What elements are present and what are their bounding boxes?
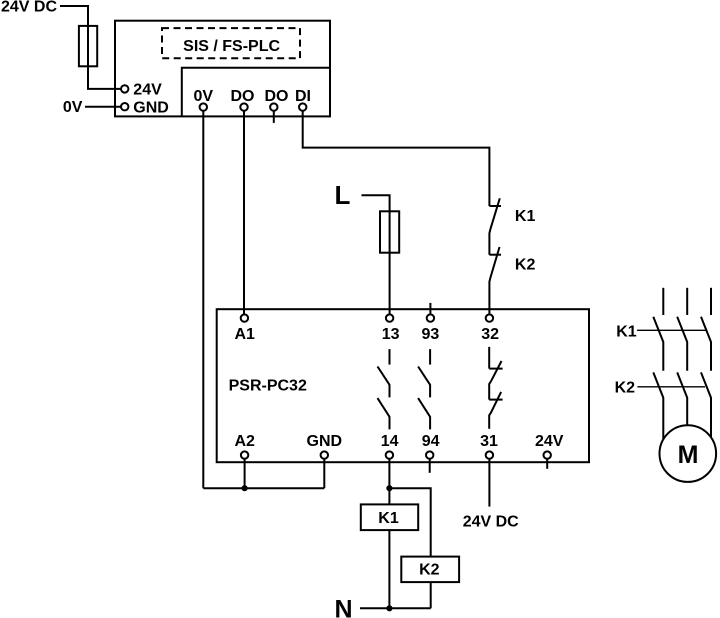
relay PSR-PC32 box bbox=[217, 309, 589, 462]
contactor K1 pole 3 bbox=[701, 317, 711, 371]
wire DO to A1 bbox=[243, 107, 245, 318]
svg-text:32: 32 bbox=[481, 326, 499, 343]
wire phase 1 supply bbox=[662, 288, 664, 315]
wire 0V from PLC to A2/GND rail bbox=[202, 107, 204, 488]
wire 24V DC feed bbox=[60, 6, 121, 89]
wire stub above terminal 93 bbox=[429, 303, 431, 318]
wire A2 to rail bbox=[244, 455, 246, 488]
svg-text:K2: K2 bbox=[419, 562, 440, 579]
motor M bbox=[660, 425, 717, 482]
terminal A2 bbox=[241, 451, 248, 458]
contactor K1 pole 2 bbox=[677, 317, 687, 371]
junction A2 rail bbox=[242, 485, 248, 491]
contactor K2 linkage bbox=[637, 386, 705, 388]
wire stub below terminal 94 bbox=[429, 455, 431, 473]
svg-text:24V DC: 24V DC bbox=[463, 514, 519, 531]
coil K1 bbox=[361, 504, 418, 530]
contact K2 (feedback, NO) bbox=[489, 247, 501, 318]
pin GND of PLC bbox=[121, 103, 128, 110]
svg-text:M: M bbox=[678, 441, 699, 469]
junction N bbox=[386, 605, 392, 611]
svg-text:K1: K1 bbox=[515, 208, 536, 225]
svg-text:PSR-PC32: PSR-PC32 bbox=[229, 378, 307, 395]
contactor K2 pole 3 bbox=[701, 372, 711, 442]
wire L feed to terminal 13 bbox=[362, 195, 390, 318]
svg-text:DO: DO bbox=[265, 88, 289, 105]
wire phase 2 supply bbox=[686, 288, 688, 315]
terminal 94 bbox=[426, 451, 433, 458]
svg-text:24V: 24V bbox=[133, 82, 162, 99]
wire 0V feed bbox=[85, 106, 121, 108]
svg-text:K2: K2 bbox=[515, 257, 536, 274]
terminal 32 bbox=[486, 314, 493, 321]
contactor K1 pole 1 bbox=[653, 317, 663, 371]
wire terminal 31 to 24V DC bbox=[488, 455, 490, 507]
terminal 24V bbox=[544, 451, 551, 458]
pin 0V of PLC I/O bbox=[200, 103, 207, 110]
svg-text:24V: 24V bbox=[535, 433, 564, 450]
svg-text:GND: GND bbox=[307, 433, 343, 450]
svg-text:A2: A2 bbox=[234, 433, 255, 450]
pin DO of PLC I/O bbox=[240, 103, 247, 110]
terminal GND bbox=[321, 451, 328, 458]
svg-text:93: 93 bbox=[422, 326, 440, 343]
svg-text:GND: GND bbox=[133, 100, 169, 117]
svg-text:L: L bbox=[335, 180, 351, 210]
svg-text:14: 14 bbox=[381, 433, 399, 450]
wire DI to K1 contact bbox=[303, 107, 490, 206]
svg-text:SIS / FS-PLC: SIS / FS-PLC bbox=[183, 38, 280, 55]
svg-text:13: 13 bbox=[382, 326, 400, 343]
wire branch to coil K2 bbox=[389, 488, 430, 608]
contactor K1 linkage bbox=[637, 329, 706, 331]
pin DO2 of PLC I/O bbox=[270, 103, 277, 110]
svg-text:0V: 0V bbox=[63, 99, 83, 116]
junction 14 branch bbox=[386, 485, 392, 491]
wire N rail bbox=[360, 607, 431, 609]
svg-text:K1: K1 bbox=[378, 510, 399, 527]
internal contact 32-31 (two NC in series) bbox=[489, 347, 502, 429]
wire 0V/A2/GND rail bbox=[203, 487, 324, 489]
wire terminal 14 to coil K1 and N bbox=[388, 455, 390, 608]
svg-text:A1: A1 bbox=[234, 326, 255, 343]
terminal 93 bbox=[427, 314, 434, 321]
svg-text:N: N bbox=[335, 596, 353, 618]
coil K2 bbox=[401, 557, 459, 583]
contact K1 (feedback, NO) bbox=[489, 198, 501, 254]
pin 24V of PLC bbox=[121, 85, 128, 92]
wire stub DO unused bbox=[273, 107, 275, 123]
internal contact 93-94 (two NO in series) bbox=[418, 349, 430, 429]
svg-text:94: 94 bbox=[422, 433, 440, 450]
wire stub below terminal 24V bbox=[546, 455, 548, 469]
wire GND to rail bbox=[323, 455, 325, 488]
contactor K2 pole 1 bbox=[653, 372, 663, 442]
fuse F1 bbox=[79, 26, 97, 66]
svg-text:DO: DO bbox=[231, 88, 255, 105]
svg-text:DI: DI bbox=[295, 88, 311, 105]
contactor K2 pole 2 bbox=[677, 372, 687, 430]
svg-text:K2: K2 bbox=[615, 380, 636, 397]
svg-text:0V: 0V bbox=[194, 88, 214, 105]
terminal 13 bbox=[386, 314, 393, 321]
PLC I/O sub-box bbox=[182, 68, 330, 117]
svg-text:K1: K1 bbox=[616, 324, 637, 341]
internal contact 13-14 (two NO in series) bbox=[378, 349, 390, 429]
wire phase 3 supply bbox=[710, 288, 712, 315]
terminal A1 bbox=[241, 314, 248, 321]
terminal 31 bbox=[486, 451, 493, 458]
pin DI of PLC I/O bbox=[299, 103, 306, 110]
label box SIS / FS-PLC bbox=[162, 28, 300, 58]
svg-text:31: 31 bbox=[480, 433, 498, 450]
svg-text:24V DC: 24V DC bbox=[1, 0, 57, 16]
fuse F2 bbox=[380, 211, 399, 252]
PLC module box bbox=[115, 21, 330, 117]
terminal 14 bbox=[386, 451, 393, 458]
